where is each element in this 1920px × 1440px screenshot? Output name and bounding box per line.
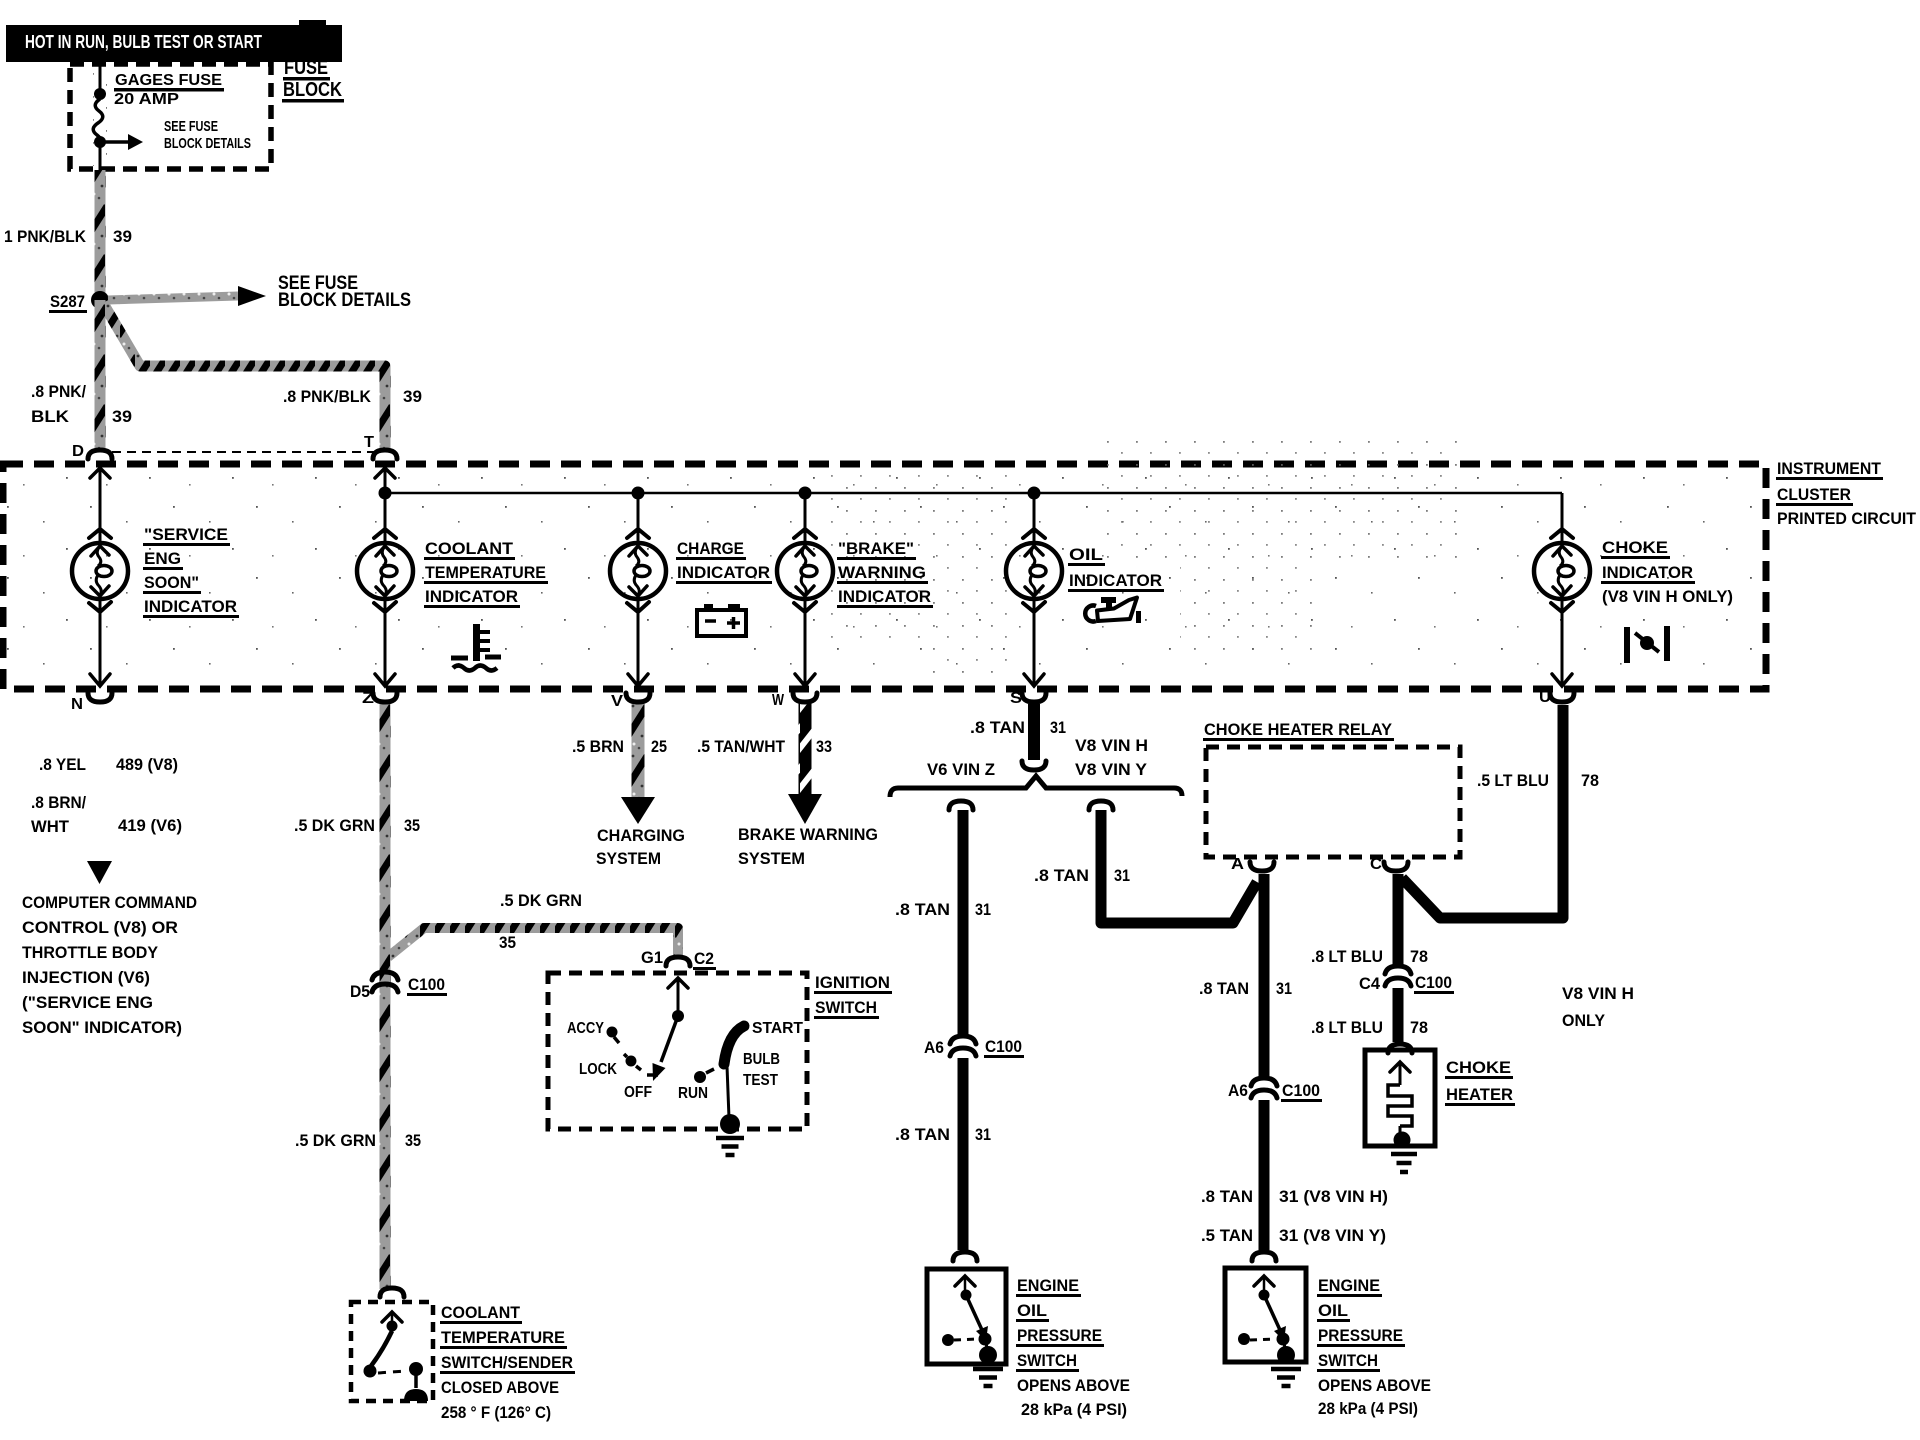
bus junction node at oil (1028, 487, 1041, 500)
bus junction node at charge (632, 487, 645, 500)
gages fuse label (114, 72, 224, 108)
right oil switch ground (1271, 1367, 1301, 1372)
svg-text:COMPUTER COMMAND: COMPUTER COMMAND (22, 893, 197, 912)
fuse block dashed box (70, 64, 271, 169)
label V8 VIN H / V8 VIN Y (1075, 736, 1148, 779)
pin S (1010, 674, 1046, 707)
svg-text:35: 35 (405, 1131, 421, 1150)
label CHARGE INDICATOR (676, 539, 772, 584)
svg-text:T: T (364, 434, 374, 451)
label "SERVICE ENG SOON" INDICATOR (143, 525, 239, 618)
wire .5 BRN 25 to charging system (arrow) (621, 702, 655, 824)
svg-text:.5 TAN: .5 TAN (1201, 1226, 1253, 1245)
instrument cluster printed circuit dashed box (3, 464, 1766, 689)
label ENGINE OIL PRESSURE SWITCH (left) (1016, 1276, 1130, 1419)
wire label .8 TAN 31 (pin A chain) (1199, 979, 1292, 998)
wire .8 TAN 31 (V8) to relay pin A (1101, 810, 1257, 923)
left engine oil pressure switch box (927, 1269, 1006, 1364)
ignition switch connector G1 / C2 (641, 948, 716, 970)
wire .5 DK GRN 35 from pin Z (380, 703, 391, 1289)
wire .8 TAN 31 (V6) lower (958, 1058, 969, 1250)
left oil switch contacts (942, 1276, 997, 1364)
pin V (611, 674, 650, 710)
choke heater element (1388, 1062, 1412, 1149)
printed circuit bus wire (100, 470, 1562, 545)
svg-text:A6: A6 (924, 1038, 944, 1057)
arrow to see fuse block details from S287 (108, 273, 411, 311)
svg-text:OIL: OIL (1017, 1301, 1047, 1320)
svg-text:CLUSTER: CLUSTER (1777, 485, 1851, 504)
svg-text:20 AMP: 20 AMP (114, 91, 179, 108)
svg-text:"BRAKE": "BRAKE" (838, 539, 914, 558)
svg-text:INSTRUMENT: INSTRUMENT (1777, 459, 1882, 478)
svg-text:258 ° F (126° C): 258 ° F (126° C) (441, 1403, 551, 1422)
svg-text:WHT: WHT (31, 817, 70, 836)
wire .8 TAN 31 from relay pin A down (1259, 874, 1270, 1078)
svg-text:OPENS ABOVE: OPENS ABOVE (1017, 1376, 1130, 1395)
svg-text:C2: C2 (694, 949, 714, 968)
label CHOKE INDICATOR (V8 VIN H ONLY) (1601, 538, 1733, 606)
svg-text:INDICATOR: INDICATOR (1602, 563, 1693, 582)
wire label .8 TAN 31 (970, 718, 1066, 737)
svg-text:SEE FUSE: SEE FUSE (164, 118, 218, 135)
svg-text:(V8 VIN H ONLY): (V8 VIN H ONLY) (1602, 587, 1733, 606)
svg-text:OIL: OIL (1318, 1301, 1348, 1320)
destination triangle (computer command control) (87, 861, 112, 884)
wire end cup at split (1022, 761, 1046, 770)
svg-text:G1: G1 (641, 948, 663, 967)
svg-text:CHOKE: CHOKE (1602, 538, 1668, 557)
svg-text:.8 TAN: .8 TAN (895, 900, 950, 919)
power feed banner: HOT IN RUN, BULB TEST OR START (6, 20, 342, 62)
svg-text:COOLANT: COOLANT (441, 1303, 521, 1322)
svg-text:INDICATOR: INDICATOR (1069, 571, 1162, 590)
svg-text:489 (V8): 489 (V8) (116, 755, 178, 774)
svg-text:N: N (71, 696, 83, 713)
wire .8 TAN 31 (V6) upper (958, 810, 969, 1036)
wire labels .8 YEL 489 (V8) / .8 BRN/WHT 419 (V6) (31, 755, 182, 836)
bus junction node at T (379, 487, 392, 500)
svg-text:INDICATOR: INDICATOR (144, 597, 237, 616)
svg-text:28 kPa (4 PSI): 28 kPa (4 PSI) (1021, 1400, 1127, 1419)
pin N (71, 674, 112, 713)
charge indicator lamp (610, 529, 666, 612)
left oil switch ground (973, 1367, 1003, 1372)
svg-text:U: U (1539, 689, 1551, 706)
svg-text:INDICATOR: INDICATOR (838, 587, 931, 606)
svg-text:.5 LT BLU: .5 LT BLU (1477, 771, 1549, 790)
choke heater ground (1391, 1152, 1417, 1157)
svg-text:BLOCK: BLOCK (283, 78, 342, 101)
svg-text:D5: D5 (350, 982, 370, 1001)
wire label .8 TAN 31 (V6 lower) (895, 1125, 991, 1144)
cup at coolant temperature switch (380, 1288, 404, 1297)
svg-text:SWITCH/SENDER: SWITCH/SENDER (441, 1353, 573, 1372)
svg-text:31: 31 (1050, 718, 1066, 737)
svg-text:INJECTION (V6): INJECTION (V6) (22, 968, 150, 987)
svg-text:"SERVICE: "SERVICE (144, 525, 228, 544)
wire label .5 DK GRN 35 (upper) (294, 816, 420, 835)
oil can icon (1085, 597, 1141, 623)
choke heater box (1365, 1050, 1435, 1146)
wire label .5 BRN 25 (572, 737, 667, 756)
pin Z (362, 674, 397, 707)
svg-text:INDICATOR: INDICATOR (425, 587, 518, 606)
pin U (1539, 674, 1574, 706)
svg-text:78: 78 (1410, 947, 1428, 966)
coolant switch contacts (364, 1312, 429, 1401)
svg-text:ONLY: ONLY (1562, 1011, 1606, 1030)
wire .8 PNK/BLK 39 from S287 to pin D (95, 300, 106, 450)
svg-text:.8 LT BLU: .8 LT BLU (1311, 947, 1383, 966)
svg-text:419 (V6): 419 (V6) (118, 816, 182, 835)
svg-text:.8 TAN: .8 TAN (1199, 979, 1249, 998)
wire label .8 LT BLU 78 (upper) (1311, 947, 1428, 966)
wire .5 TAN/WHT 33 to brake warning system (arrow) (788, 702, 822, 824)
ignition switch ground (716, 1136, 744, 1141)
oil indicator lamp (1006, 529, 1062, 612)
svg-text:HOT IN RUN, BULB TEST OR START: HOT IN RUN, BULB TEST OR START (25, 31, 263, 52)
ignition position RUN (678, 1069, 714, 1102)
coolant temperature switch/sender dashed box (351, 1302, 433, 1401)
ignition position START / BULB TEST arc (724, 1020, 804, 1089)
connector C100 pin A6 (V6 branch) (924, 1036, 1024, 1058)
svg-text:V6 VIN Z: V6 VIN Z (927, 760, 995, 779)
ignition switch dashed box (548, 973, 807, 1129)
svg-text:OIL: OIL (1069, 545, 1103, 564)
svg-text:C100: C100 (408, 975, 445, 994)
svg-text:TEMPERATURE: TEMPERATURE (441, 1328, 565, 1347)
svg-text:SWITCH: SWITCH (1017, 1351, 1077, 1370)
relay pin A (1231, 856, 1274, 873)
connector C100 pin A6 (V8 chain) (1228, 1078, 1322, 1102)
choke heater relay dashed box (1206, 747, 1460, 857)
svg-text:CONTROL (V8) OR: CONTROL (V8) OR (22, 918, 178, 937)
choke indicator lamp (V8 VIN H only) (1534, 529, 1590, 612)
svg-text:WARNING: WARNING (838, 563, 926, 582)
svg-text:IGNITION: IGNITION (815, 973, 890, 992)
svg-text:39: 39 (403, 387, 422, 406)
wire .8 LT BLU 78 (lower) (1393, 988, 1404, 1042)
svg-text:GAGES FUSE: GAGES FUSE (115, 72, 222, 89)
scan noise speckle patches (830, 440, 1460, 680)
svg-text:31 (V8 VIN H): 31 (V8 VIN H) (1279, 1187, 1388, 1206)
pin D (72, 443, 112, 478)
wire label .8 TAN 31 (V6) (895, 900, 991, 919)
svg-text:31: 31 (975, 1125, 991, 1144)
svg-text:.8 TAN: .8 TAN (895, 1125, 950, 1144)
svg-text:CHOKE: CHOKE (1446, 1058, 1511, 1077)
ignition position OFF (624, 1075, 658, 1101)
svg-text:.8 TAN: .8 TAN (970, 718, 1025, 737)
svg-text:31: 31 (1114, 866, 1130, 885)
wire label .5 TAN/WHT 33 (697, 737, 832, 756)
branch wire .5 DK GRN 35 to ignition switch (388, 928, 678, 957)
svg-text:TEMPERATURE: TEMPERATURE (425, 563, 546, 582)
ignition position ACCY (567, 1020, 619, 1043)
svg-text:.5 DK GRN: .5 DK GRN (295, 1131, 376, 1150)
svg-text:25: 25 (651, 737, 667, 756)
wire label .8 PNK/BLK 39 (left) (31, 382, 132, 426)
svg-text:C100: C100 (1282, 1081, 1320, 1100)
svg-text:PRESSURE: PRESSURE (1017, 1326, 1102, 1345)
gages fuse element (20 amp) (93, 88, 106, 148)
svg-text:.8 LT BLU: .8 LT BLU (1311, 1018, 1383, 1037)
svg-text:S: S (1010, 690, 1022, 707)
ignition switch contact from C2 (668, 978, 688, 1022)
svg-text:SWITCH: SWITCH (815, 998, 877, 1017)
svg-text:28 kPa (4 PSI): 28 kPa (4 PSI) (1318, 1399, 1418, 1418)
label BRAKE WARNING SYSTEM (738, 825, 878, 868)
svg-text:78: 78 (1410, 1018, 1428, 1037)
svg-text:SYSTEM: SYSTEM (596, 849, 661, 868)
"BRAKE" warning indicator lamp (777, 529, 833, 612)
svg-text:ENGINE: ENGINE (1017, 1276, 1079, 1295)
wire .8 LT BLU 78 from relay pin C (1393, 874, 1404, 964)
relay pin C (1370, 856, 1408, 873)
svg-text:CHARGING: CHARGING (597, 826, 685, 845)
cup at right engine oil pressure switch (1252, 1252, 1276, 1261)
svg-text:Z: Z (362, 690, 374, 707)
svg-text:RUN: RUN (678, 1085, 708, 1102)
svg-text:.8 TAN: .8 TAN (1201, 1187, 1253, 1206)
svg-text:BLK: BLK (31, 407, 70, 426)
cup at left engine oil pressure switch (953, 1252, 977, 1261)
svg-text:SOON": SOON" (144, 573, 199, 592)
svg-text:39: 39 (112, 407, 132, 426)
svg-text:CHARGE: CHARGE (677, 539, 744, 558)
label COMPUTER COMMAND CONTROL (22, 893, 197, 1037)
svg-text:35: 35 (404, 816, 420, 835)
svg-text:31: 31 (975, 900, 991, 919)
"SERVICE ENG SOON" indicator lamp (72, 529, 128, 612)
wire .8 PNK/BLK 39 from S287 to pin T (103, 303, 385, 450)
svg-text:W: W (772, 692, 785, 709)
wire label .5 TAN 31 (V8 VIN Y) (1201, 1226, 1386, 1245)
lamp return wires to bottom pins (100, 598, 1562, 684)
connector C100 pin D5 (coolant wire) (350, 972, 447, 1001)
label CHARGING SYSTEM (596, 826, 685, 868)
label INSTRUMENT CLUSTER PRINTED CIRCUIT (1776, 459, 1917, 528)
wire label 1 PNK/BLK 39 (4, 227, 132, 246)
bus junction node at brake (799, 487, 812, 500)
svg-text:C4: C4 (1359, 974, 1381, 993)
label CHOKE HEATER (1445, 1058, 1515, 1106)
svg-text:PRINTED CIRCUIT: PRINTED CIRCUIT (1777, 509, 1917, 528)
wire label .8 LT BLU 78 (lower) (1311, 1018, 1428, 1037)
svg-text:BLOCK DETAILS: BLOCK DETAILS (278, 290, 411, 311)
svg-text:D: D (72, 443, 84, 460)
wire label .5 DK GRN (branch) (499, 891, 582, 952)
svg-text:.5 DK GRN: .5 DK GRN (294, 816, 375, 835)
svg-text:THROTTLE BODY: THROTTLE BODY (22, 943, 159, 962)
wire label .5 LT BLU 78 (1477, 771, 1599, 790)
svg-text:.8 TAN: .8 TAN (1034, 866, 1089, 885)
svg-text:HEATER: HEATER (1446, 1085, 1513, 1104)
svg-text:BULB: BULB (743, 1051, 780, 1068)
svg-text:FUSE: FUSE (284, 56, 328, 79)
wire label .8 TAN 31 (V8 VIN H) (1201, 1187, 1388, 1206)
svg-text:CHOKE HEATER RELAY: CHOKE HEATER RELAY (1204, 720, 1393, 739)
svg-text:C: C (1370, 856, 1382, 873)
ignition switch wiper arm (points at OFF) (653, 1016, 679, 1081)
wire label .5 DK GRN 35 (lower) (295, 1131, 421, 1150)
label COOLANT TEMPERATURE INDICATOR (424, 539, 548, 608)
ignition switch ground wire (720, 1066, 740, 1134)
cup at choke heater (1388, 1044, 1412, 1053)
wire from banner into fuse (99, 62, 102, 91)
label V8 VIN H ONLY (1562, 984, 1634, 1030)
wire .8 TAN / .5 TAN 31 (V8 chain lower) (1259, 1100, 1270, 1250)
svg-text:.5 BRN: .5 BRN (572, 737, 624, 756)
wire label .8 TAN 31 (V8 horizontal) (1034, 866, 1130, 885)
svg-text:CLOSED ABOVE: CLOSED ABOVE (441, 1378, 559, 1397)
svg-text:BRAKE WARNING: BRAKE WARNING (738, 825, 878, 844)
svg-text:.8 YEL: .8 YEL (39, 755, 86, 774)
svg-text:C100: C100 (985, 1037, 1022, 1056)
wire .8 TAN 31 from pin S (1028, 704, 1040, 760)
label COOLANT TEMPERATURE SWITCH/SENDER (440, 1303, 575, 1422)
right oil switch contacts (1238, 1276, 1295, 1364)
split bracket V6 VIN Z / V8 VIN H, V8 VIN Y (890, 776, 1182, 797)
battery icon (charge) (697, 604, 746, 636)
wire label .8 PNK/BLK 39 (right) (283, 387, 422, 406)
svg-text:V: V (611, 693, 623, 710)
connector C100 pin C4 (1359, 966, 1454, 994)
svg-text:C100: C100 (1415, 973, 1452, 992)
svg-text:COOLANT: COOLANT (425, 539, 514, 558)
see fuse block details arrow (in fuse block) (100, 118, 251, 152)
svg-text:39: 39 (113, 227, 132, 246)
wire .5 LT BLU 78 from pin U to relay pin C (1402, 705, 1563, 918)
svg-text:TEST: TEST (743, 1072, 778, 1089)
pin W (772, 674, 817, 709)
svg-text:33: 33 (816, 737, 832, 756)
svg-text:.8 PNK/BLK: .8 PNK/BLK (283, 387, 372, 406)
svg-text:1 PNK/BLK: 1 PNK/BLK (4, 227, 87, 246)
choke icon (choke plate) (1624, 626, 1670, 663)
svg-text:OPENS ABOVE: OPENS ABOVE (1318, 1376, 1431, 1395)
svg-text:.8 PNK/: .8 PNK/ (31, 382, 86, 401)
wire 1 PNK/BLK 39 from fuse block to S287 (95, 170, 106, 298)
left branch cup (949, 801, 973, 810)
svg-text:SYSTEM: SYSTEM (738, 849, 805, 868)
connector link D to T (dashed) (112, 451, 378, 453)
coolant temperature icon (thermometer in liquid) (451, 624, 501, 671)
svg-text:S287: S287 (50, 292, 85, 311)
svg-text:SWITCH: SWITCH (1318, 1351, 1378, 1370)
svg-text:.5 TAN/WHT: .5 TAN/WHT (697, 737, 786, 756)
svg-text:A6: A6 (1228, 1081, 1248, 1100)
svg-text:ENG: ENG (144, 549, 181, 568)
label IGNITION SWITCH (814, 973, 892, 1019)
svg-text:V8 VIN Y: V8 VIN Y (1075, 760, 1148, 779)
svg-text:V8 VIN H: V8 VIN H (1075, 736, 1148, 755)
label OIL INDICATOR (1068, 545, 1164, 592)
svg-text:31: 31 (1276, 979, 1292, 998)
svg-text:OFF: OFF (624, 1084, 652, 1101)
svg-text:SOON" INDICATOR): SOON" INDICATOR) (22, 1018, 182, 1037)
svg-text:("SERVICE ENG: ("SERVICE ENG (22, 993, 153, 1012)
svg-text:INDICATOR: INDICATOR (677, 563, 770, 582)
svg-text:START: START (752, 1020, 804, 1037)
svg-text:.5 DK GRN: .5 DK GRN (500, 891, 582, 910)
label "BRAKE" WARNING INDICATOR (837, 539, 933, 608)
svg-text:BLOCK DETAILS: BLOCK DETAILS (164, 135, 251, 152)
fuse block title FUSE BLOCK (282, 56, 344, 103)
svg-text:A: A (1231, 856, 1244, 873)
right engine oil pressure switch box (1225, 1268, 1306, 1362)
svg-text:PRESSURE: PRESSURE (1318, 1326, 1403, 1345)
pin T (364, 434, 397, 478)
svg-text:78: 78 (1581, 771, 1599, 790)
splice S287 (49, 291, 109, 313)
label ENGINE OIL PRESSURE SWITCH (right) (1317, 1276, 1431, 1418)
svg-text:V8 VIN H: V8 VIN H (1562, 984, 1634, 1003)
svg-text:ACCY: ACCY (567, 1020, 605, 1037)
ignition position LOCK (579, 1054, 641, 1078)
svg-text:ENGINE: ENGINE (1318, 1276, 1380, 1295)
coolant temperature indicator lamp (357, 529, 413, 612)
svg-text:31 (V8 VIN Y): 31 (V8 VIN Y) (1279, 1226, 1386, 1245)
right branch cup (1089, 801, 1113, 810)
svg-text:LOCK: LOCK (579, 1061, 618, 1078)
svg-text:.8 BRN/: .8 BRN/ (31, 793, 86, 812)
svg-text:35: 35 (499, 933, 516, 952)
